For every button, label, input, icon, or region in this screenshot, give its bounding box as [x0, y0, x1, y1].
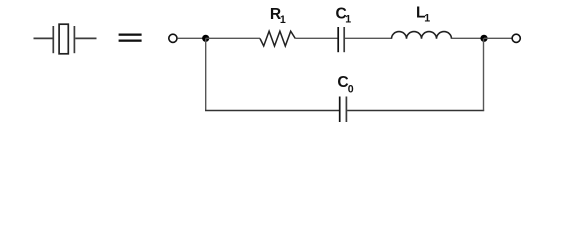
label C1 — [336, 6, 352, 26]
wire C1 to L1 — [345, 37, 392, 39]
wire terminal-left to node A — [178, 37, 206, 39]
svg-text:1: 1 — [424, 12, 430, 24]
svg-text:0: 0 — [348, 83, 354, 95]
crystal Y1 left lead wire — [34, 37, 53, 39]
terminal left (open circle) — [169, 34, 177, 42]
crystal Y1 right lead wire — [75, 37, 96, 39]
node B junction dot — [480, 35, 487, 42]
wire L1 to node B — [452, 37, 485, 39]
inductor L1 — [392, 32, 452, 39]
crystal Y1 left electrode plate — [52, 26, 54, 53]
crystal Y1 quartz body box — [59, 24, 68, 54]
crystal Y1 right electrode plate — [73, 26, 75, 53]
label C0 — [337, 74, 353, 95]
wire node A down (left vertical of shunt branch) — [205, 38, 207, 110]
wire node B down (right vertical of shunt branch) — [483, 38, 485, 110]
svg-text:1: 1 — [280, 14, 286, 26]
wire node A to R1 — [206, 37, 260, 39]
resistor R1 — [260, 31, 295, 46]
wire C0 to bottom right — [347, 110, 484, 112]
label R1 — [270, 6, 286, 26]
equals sign — [119, 34, 142, 42]
terminal right (open circle) — [512, 34, 520, 42]
wire R1 to C1 — [295, 37, 337, 39]
wire bottom left to C0 — [205, 110, 339, 112]
svg-text:1: 1 — [345, 13, 351, 25]
node A junction dot — [202, 35, 209, 42]
wire node B to terminal right — [484, 37, 512, 39]
capacitor C1 — [338, 27, 344, 52]
label L1 — [416, 5, 430, 25]
capacitor C0 — [340, 97, 347, 123]
